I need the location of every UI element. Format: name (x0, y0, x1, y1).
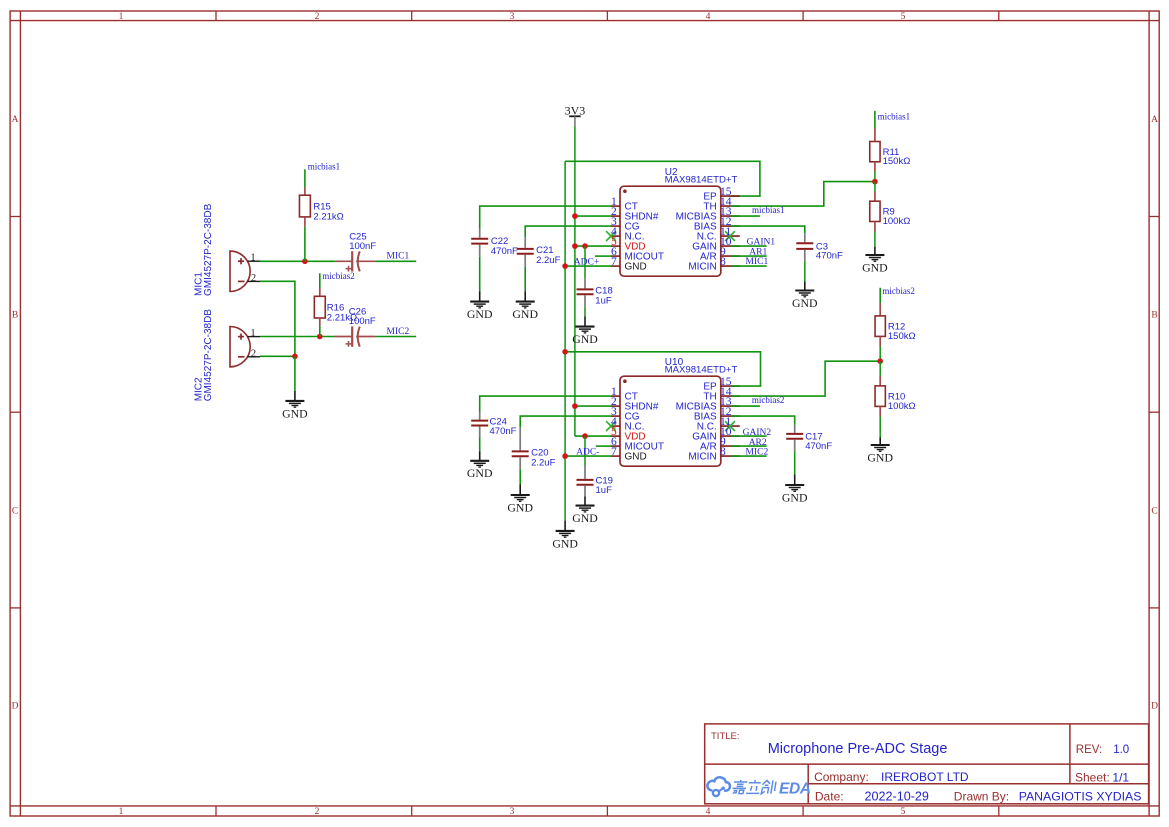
wire U2 BIAS to C3 (731, 226, 805, 233)
svg-text:GND: GND (862, 260, 888, 274)
junction (317, 334, 323, 340)
pin 9 A/R (U10) (700, 436, 740, 453)
wire R9 to GND (874, 232, 876, 247)
pin 14 TH (U2) (703, 196, 739, 213)
ground (C17) (782, 485, 808, 504)
wire U2 EP top run (565, 161, 760, 196)
pin 3 CG (U10) (611, 406, 640, 423)
svg-text:MAX9814ETD+T: MAX9814ETD+T (665, 175, 738, 186)
svg-text:1.0: 1.0 (1113, 744, 1129, 756)
capacitor C21 2.2uF (517, 237, 561, 267)
capacitor C24 470nF (471, 412, 516, 438)
svg-text:B: B (12, 311, 18, 321)
svg-text:GMI4527P-2C-38DB: GMI4527P-2C-38DB (203, 309, 214, 402)
frame column ticks bottom (215, 806, 217, 816)
pin 12 BIAS (U2) (694, 216, 740, 233)
ground (R9) (862, 255, 888, 274)
ground (C22) (467, 302, 493, 321)
svg-text:2022-10-29: 2022-10-29 (865, 790, 929, 804)
value GMI4527P-2C-38DB (vertical) (203, 203, 214, 296)
svg-text:A: A (1151, 115, 1158, 125)
svg-text:D: D (12, 702, 19, 712)
svg-text:B: B (1151, 311, 1157, 321)
pin 10 GAIN (U10) (692, 426, 740, 443)
svg-text:MICIN: MICIN (688, 452, 716, 463)
svg-text:Microphone Pre-ADC Stage: Microphone Pre-ADC Stage (768, 741, 948, 757)
frame row ticks right (1149, 216, 1159, 218)
capacitor C25 100nF (polarized) (335, 231, 376, 271)
capacitor C22 470nF (471, 229, 518, 257)
svg-text:micbias1: micbias1 (752, 205, 785, 215)
net flag micbias1 (top of R11) (874, 111, 876, 128)
svg-text:GND: GND (512, 307, 538, 321)
wire U10 MICOUT stub (596, 445, 611, 447)
ground (R10) (867, 445, 893, 464)
capacitor C26 100nF (polarized) (335, 307, 376, 347)
svg-text:ADC-: ADC- (576, 448, 599, 458)
wire C21 to GND (524, 267, 526, 291)
pin 3 CG (U2) (611, 216, 640, 233)
junction (302, 259, 308, 265)
pin 12 BIAS (U10) (694, 406, 740, 423)
pin 7 GND (U2) (611, 256, 647, 273)
svg-text:2.21kΩ: 2.21kΩ (313, 211, 343, 222)
wire U2 TH to R11/R9 junction (731, 182, 875, 207)
wire R16 to MIC2 pin1 (319, 326, 321, 337)
svg-text:REV:: REV: (1076, 744, 1102, 756)
svg-text:7: 7 (611, 256, 617, 268)
wire junction to R10 (879, 361, 881, 376)
junction (562, 263, 568, 269)
designator MIC1 (vertical) (194, 272, 205, 296)
wire left vertical rail (EP/GND net) (564, 161, 566, 520)
pin 2 SHDN# (U2) (611, 206, 659, 223)
pin 2 SHDN# (U10) (611, 396, 659, 413)
wire C22 to GND (479, 257, 481, 291)
resistor R16 2.21k (314, 288, 357, 326)
wire C19 to GND (584, 497, 586, 506)
JLC EDA logo text (stylized CJK) (732, 780, 777, 794)
svg-text:micbias2: micbias2 (752, 395, 785, 405)
svg-text:MIC1: MIC1 (387, 251, 410, 261)
net label micbias1 (pin13) (731, 215, 760, 217)
wire U10 GND pin to rail (net ADC-) (565, 455, 611, 457)
pin 11 N.C. (U2) (697, 226, 740, 243)
pin 4 N.C. (U10) (606, 416, 644, 433)
wire U2 SHDN# to 3V3 rail (575, 215, 611, 217)
pin 10 GAIN (U2) (692, 236, 740, 253)
pin 9 A/R (U2) (700, 246, 740, 263)
title block frame (705, 724, 1149, 804)
resistor R9 100k (870, 192, 911, 232)
svg-text:TITLE:: TITLE: (711, 731, 740, 742)
wire R15 to MIC1 pin1 (304, 227, 306, 261)
pin 15 EP (U2) (703, 186, 739, 203)
wire R10 to GND (879, 416, 881, 437)
wire U2 GND pin to rail (net ADC+) (565, 265, 611, 267)
pin 7 GND (U10) (611, 446, 647, 463)
wire 3V3 rail vertical (574, 127, 576, 437)
net flag micbias1 (at R15) (304, 169, 306, 187)
svg-text:MIC2: MIC2 (387, 327, 410, 337)
ground (C20) (507, 495, 533, 514)
ground (C19) (572, 506, 598, 525)
svg-text:GND: GND (467, 466, 493, 480)
wire C26 to MIC2 net flag (375, 336, 416, 338)
svg-text:GND: GND (282, 406, 308, 420)
svg-text:2: 2 (315, 12, 320, 22)
svg-text:8: 8 (720, 256, 726, 268)
wire R12 to junction (879, 347, 881, 362)
ground (C24) (467, 461, 493, 480)
svg-text:8: 8 (720, 446, 726, 458)
svg-text:A: A (12, 115, 19, 125)
junction (572, 213, 578, 219)
wire MIC2 pin2 to GND (260, 355, 295, 357)
svg-text:100kΩ: 100kΩ (883, 216, 911, 227)
svg-text:1uF: 1uF (595, 295, 612, 306)
svg-text:AR2: AR2 (749, 438, 767, 448)
wire VDD branch to C18 (584, 246, 586, 277)
junction (872, 179, 878, 185)
pin 6 MICOUT (U10) (611, 436, 664, 453)
svg-text:3V3: 3V3 (565, 103, 586, 117)
wire U2 CG to C21 (525, 226, 611, 237)
capacitor C3 470nF (796, 233, 843, 261)
op-amp IC U10 MAX9814ETD+T body (620, 376, 721, 466)
svg-text:GND: GND (867, 450, 893, 464)
svg-text:Sheet:: Sheet: (1075, 771, 1110, 785)
wire U10 GAIN stub (net GAIN2) (731, 435, 767, 437)
svg-text:5: 5 (901, 12, 906, 22)
svg-text:GND: GND (782, 490, 808, 504)
svg-text:3: 3 (510, 12, 515, 22)
wire U10 CT to C24 (480, 396, 611, 411)
wire C3 to GND (804, 262, 806, 282)
junction (572, 403, 578, 409)
wire C18 to GND (584, 307, 586, 316)
wire C20 to GND (519, 469, 521, 484)
pin 5 VDD (U2) (611, 236, 646, 253)
pin 13 MICBIAS (U2) (676, 206, 740, 223)
svg-text:2: 2 (251, 348, 256, 359)
power flag 3V3 (565, 103, 586, 126)
capacitor C20 2.2uF (512, 427, 556, 469)
svg-text:5: 5 (901, 807, 906, 817)
svg-text:470nF: 470nF (490, 426, 517, 437)
pin 8 MICIN (U10) (688, 446, 739, 463)
svg-text:GND: GND (572, 332, 598, 346)
op-amp IC U2 MAX9814ETD+T body (620, 186, 721, 276)
wire U10 A/R stub (net AR2) (731, 445, 767, 447)
net label micbias2 (pin13) (731, 405, 760, 407)
svg-text:100kΩ: 100kΩ (888, 401, 916, 412)
svg-text:1: 1 (250, 253, 255, 264)
svg-text:Company:: Company: (814, 770, 869, 784)
pin 8 MICIN (U2) (688, 256, 739, 273)
wire R11 to junction (874, 172, 876, 182)
microphone MIC1 GMI4527P-2C-38DB (230, 251, 260, 291)
resistor R12 150k (875, 303, 916, 347)
svg-text:C: C (12, 506, 18, 516)
wire U2 GAIN stub (net GAIN1) (731, 245, 767, 247)
svg-text:micbias1: micbias1 (308, 161, 341, 171)
svg-text:4: 4 (706, 12, 711, 22)
wire U10 CG to C20 (520, 416, 611, 427)
pin 5 VDD (U10) (611, 426, 646, 443)
svg-text:D: D (1151, 702, 1158, 712)
svg-text:3: 3 (510, 807, 515, 817)
svg-text:PANAGIOTIS XYDIAS: PANAGIOTIS XYDIAS (1019, 790, 1142, 804)
junction (562, 453, 568, 459)
resistor R11 150k (870, 128, 911, 172)
wire U2 VDD to 3V3 rail (575, 245, 611, 247)
pin 4 N.C. (U2) (606, 226, 644, 243)
svg-text:EDA: EDA (779, 780, 811, 797)
svg-text:ADC+: ADC+ (574, 258, 599, 268)
wire MIC2 pin1 to C26 (260, 336, 335, 338)
svg-text:AR1: AR1 (749, 248, 767, 258)
value GMI4527P-2C-38DB (vertical) (203, 309, 214, 402)
junction (572, 243, 578, 249)
wire MIC1 pin2 down to GND rail (260, 281, 295, 356)
wire U2 MICIN stub (net MIC1) (731, 265, 767, 267)
svg-text:470nF: 470nF (491, 246, 518, 257)
sheet frame inner border (10, 20, 1159, 22)
svg-text:GND: GND (552, 536, 578, 550)
svg-text:1: 1 (119, 807, 124, 817)
svg-text:470nF: 470nF (816, 251, 843, 262)
capacitor C19 1uF (577, 466, 613, 497)
svg-text:GAIN2: GAIN2 (743, 428, 772, 438)
svg-text:IREROBOT LTD: IREROBOT LTD (881, 770, 969, 784)
svg-text:GND: GND (625, 262, 647, 273)
frame column ticks top (215, 11, 217, 21)
svg-text:MICIN: MICIN (688, 262, 716, 273)
wire U10 TH to R12/R10 junction (731, 361, 880, 396)
junction (292, 354, 298, 360)
wire C25 to MIC1 net flag (375, 260, 416, 262)
pin 1 CT (U2) (611, 196, 638, 213)
pin 14 TH (U10) (703, 386, 739, 403)
svg-text:GND: GND (467, 307, 493, 321)
wire C17 to GND (794, 451, 796, 474)
svg-text:GND: GND (625, 452, 647, 463)
pin 11 N.C. (U10) (697, 416, 740, 433)
ground (C3) (792, 291, 818, 310)
wire MIC1 pin1 to C25 (260, 260, 335, 262)
wire junction to R9 (874, 182, 876, 192)
svg-text:2: 2 (315, 807, 320, 817)
junction (562, 349, 568, 355)
pin 15 EP (U10) (703, 376, 739, 393)
capacitor C17 470nF (786, 425, 832, 452)
wire U10 MICIN stub (net MIC2) (731, 455, 767, 457)
svg-text:GND: GND (792, 296, 818, 310)
wire U10 EP run to rail (565, 352, 760, 386)
svg-text:100nF: 100nF (349, 241, 376, 252)
svg-text:2.21kΩ: 2.21kΩ (327, 312, 357, 323)
wire U10 SHDN# to 3V3 rail (575, 405, 611, 407)
wire down to mic GND (294, 356, 296, 390)
ground (C21) (512, 302, 538, 321)
ground (rail bottom) (552, 531, 578, 550)
svg-text:1uF: 1uF (596, 485, 613, 496)
junction (582, 433, 588, 439)
svg-text:1/1: 1/1 (1112, 771, 1129, 785)
wire U2 A/R stub (net AR1) (731, 255, 767, 257)
resistor R15 2.21k (299, 187, 343, 226)
svg-text:7: 7 (611, 446, 617, 458)
svg-text:micbias1: micbias1 (878, 112, 911, 122)
JLC EDA logo cloud (707, 777, 730, 796)
svg-text:Drawn By:: Drawn By: (954, 790, 1009, 804)
svg-text:micbias2: micbias2 (882, 286, 915, 296)
svg-text:MIC2: MIC2 (746, 447, 769, 457)
junction (582, 243, 588, 249)
svg-text:Date:: Date: (815, 790, 844, 804)
svg-text:C: C (1151, 506, 1157, 516)
wire C24 to GND (479, 437, 481, 451)
resistor R10 100k (875, 376, 916, 417)
capacitor C18 1uF (577, 278, 613, 307)
pin 6 MICOUT (U2) (611, 246, 664, 263)
frame row ticks left (10, 216, 20, 218)
svg-text:micbias2: micbias2 (322, 271, 355, 281)
svg-text:MIC1: MIC1 (746, 257, 769, 267)
net flag micbias2 (top of R12) (879, 288, 881, 303)
pin 13 MICBIAS (U10) (676, 396, 740, 413)
net flag micbias2 (at R16) (319, 273, 321, 288)
svg-text:2: 2 (251, 273, 256, 284)
wire U2 MICOUT stub (595, 255, 611, 257)
svg-text:GND: GND (507, 500, 533, 514)
svg-text:2.2uF: 2.2uF (531, 457, 555, 468)
svg-text:150kΩ: 150kΩ (883, 156, 911, 167)
svg-text:150kΩ: 150kΩ (888, 331, 916, 342)
svg-text:4: 4 (706, 807, 711, 817)
svg-text:1: 1 (119, 12, 124, 22)
designator MIC2 (vertical) (194, 377, 205, 401)
svg-text:GAIN1: GAIN1 (747, 238, 776, 248)
wire U2 CT to C22 (480, 206, 611, 228)
ground (C18) (572, 327, 598, 346)
svg-text:GMI4527P-2C-38DB: GMI4527P-2C-38DB (203, 203, 214, 296)
microphone MIC2 GMI4527P-2C-38DB (230, 326, 260, 366)
svg-text:MAX9814ETD+T: MAX9814ETD+T (665, 365, 738, 376)
svg-text:2.2uF: 2.2uF (536, 255, 560, 266)
wire U10 BIAS to C17 (731, 416, 795, 425)
ground (microphones) (282, 401, 308, 420)
pin 1 CT (U10) (611, 386, 638, 403)
svg-text:470nF: 470nF (805, 441, 832, 452)
svg-text:1: 1 (250, 328, 255, 339)
junction (877, 358, 883, 364)
wire 3V3 rail to U10 VDD (575, 435, 611, 437)
svg-text:GND: GND (572, 511, 598, 525)
